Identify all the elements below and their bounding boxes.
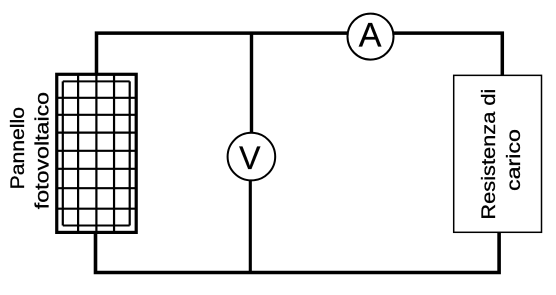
svg-text:fotovoltaico: fotovoltaico bbox=[32, 92, 54, 209]
svg-text:V: V bbox=[239, 140, 261, 176]
svg-text:carico: carico bbox=[503, 129, 525, 191]
svg-text:Resistenza di: Resistenza di bbox=[478, 89, 500, 220]
svg-text:A: A bbox=[359, 16, 382, 54]
svg-text:Pannello: Pannello bbox=[7, 107, 29, 189]
